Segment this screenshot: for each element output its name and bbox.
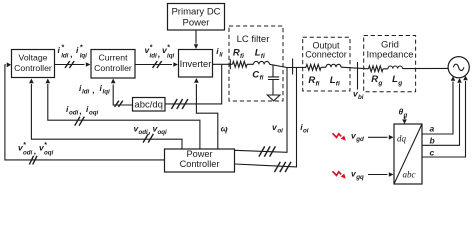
svg-text:,: , [79,106,82,116]
svg-text:Voltage: Voltage [19,52,48,62]
svg-text:Connector: Connector [305,50,347,60]
svg-text:c: c [430,147,435,157]
svg-text:odi: odi [23,150,33,157]
svg-text:Controller: Controller [14,63,52,73]
svg-text:g: g [377,80,382,87]
svg-text:*: * [167,45,170,52]
svg-text:Primary DC: Primary DC [171,7,220,18]
svg-text:LC filter: LC filter [237,34,270,45]
svg-text:R: R [371,74,378,85]
svg-text:Power: Power [183,18,210,29]
svg-text:*: * [44,142,47,149]
svg-text:gq: gq [355,174,364,181]
svg-text:oqi: oqi [89,110,99,117]
svg-text:*: * [80,45,83,52]
svg-text:Impedance: Impedance [366,49,413,60]
svg-text:,: , [92,85,95,95]
svg-text:Controller: Controller [94,63,132,73]
svg-text:abc: abc [403,170,416,180]
svg-text:fi: fi [316,80,320,87]
svg-text:Power: Power [186,149,212,159]
svg-text:odi: odi [139,129,149,136]
svg-text:,: , [33,146,36,156]
svg-text:,: , [70,49,73,59]
svg-text:fi: fi [261,53,265,60]
svg-text:dq: dq [397,134,407,144]
svg-text:oqi: oqi [44,150,54,157]
svg-text:,: , [157,49,160,59]
svg-text:gd: gd [355,136,364,143]
svg-text:bi: bi [358,94,364,101]
svg-text:g: g [403,112,408,119]
svg-text:li: li [219,52,223,59]
svg-text:L: L [330,75,336,86]
svg-text:oqi: oqi [158,129,168,136]
svg-text:L: L [255,48,261,59]
svg-text:Current: Current [99,52,129,62]
svg-text:fi: fi [336,80,340,87]
svg-text:idi: idi [150,53,157,60]
svg-text:b: b [430,135,435,145]
svg-text:ldi: ldi [61,53,68,60]
svg-text:a: a [430,124,435,134]
svg-text:ldi: ldi [82,89,89,96]
svg-text:C: C [252,70,259,81]
svg-text:*: * [23,142,26,149]
svg-text:i: i [225,129,227,136]
svg-text:fi: fi [260,75,264,82]
svg-text:oi: oi [277,128,283,135]
svg-text:*: * [150,45,153,52]
svg-text:odi: odi [69,110,79,117]
svg-text:lqi: lqi [80,53,87,60]
svg-text:L: L [392,74,398,85]
svg-text:g: g [397,80,402,87]
svg-text:R: R [233,48,240,59]
svg-text:*: * [61,45,64,52]
svg-text:fi: fi [240,53,244,60]
svg-text:,: , [148,126,151,136]
svg-text:R: R [308,75,315,86]
svg-text:lqi: lqi [103,89,110,96]
svg-text:Controller: Controller [180,159,220,169]
svg-text:iqi: iqi [167,53,174,60]
svg-text:abc/dq: abc/dq [134,100,163,111]
svg-text:oi: oi [303,128,309,135]
svg-text:Inverter: Inverter [180,58,212,69]
